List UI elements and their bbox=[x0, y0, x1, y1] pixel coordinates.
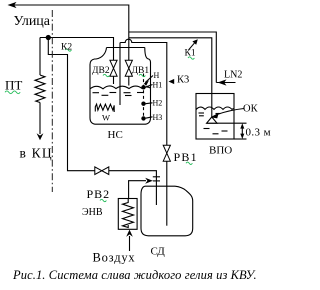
svg-text:Рис.1. Система слива жидкого г: Рис.1. Система слива жидкого гелия из КВ… bbox=[12, 268, 257, 282]
svg-text:Н3: Н3 bbox=[153, 113, 163, 122]
svg-text:LN2: LN2 bbox=[224, 70, 242, 81]
svg-text:ОК: ОК bbox=[243, 104, 259, 115]
svg-text:Н1: Н1 bbox=[153, 81, 163, 90]
svg-text:ВПО: ВПО bbox=[209, 145, 232, 157]
svg-text:в КЦ: в КЦ bbox=[20, 145, 53, 160]
svg-text:РВ2: РВ2 bbox=[87, 187, 111, 201]
svg-text:К1: К1 bbox=[185, 49, 196, 59]
svg-text:ЭНВ: ЭНВ bbox=[82, 207, 103, 218]
svg-text:0.3 м: 0.3 м bbox=[246, 126, 271, 138]
svg-text:Н2: Н2 bbox=[153, 99, 163, 108]
svg-text:ПТ: ПТ bbox=[5, 78, 22, 93]
svg-text:W: W bbox=[102, 113, 110, 123]
svg-text:РВ1: РВ1 bbox=[174, 150, 198, 164]
svg-text:Н: Н bbox=[154, 71, 160, 80]
svg-text:НС: НС bbox=[108, 129, 123, 141]
svg-text:Улица: Улица bbox=[14, 14, 51, 29]
svg-text:Воздух: Воздух bbox=[93, 251, 136, 265]
svg-text:К3: К3 bbox=[177, 75, 189, 86]
svg-text:К2: К2 bbox=[61, 43, 72, 53]
svg-text:ДВ2: ДВ2 bbox=[92, 66, 110, 76]
svg-text:СД: СД bbox=[151, 246, 166, 258]
